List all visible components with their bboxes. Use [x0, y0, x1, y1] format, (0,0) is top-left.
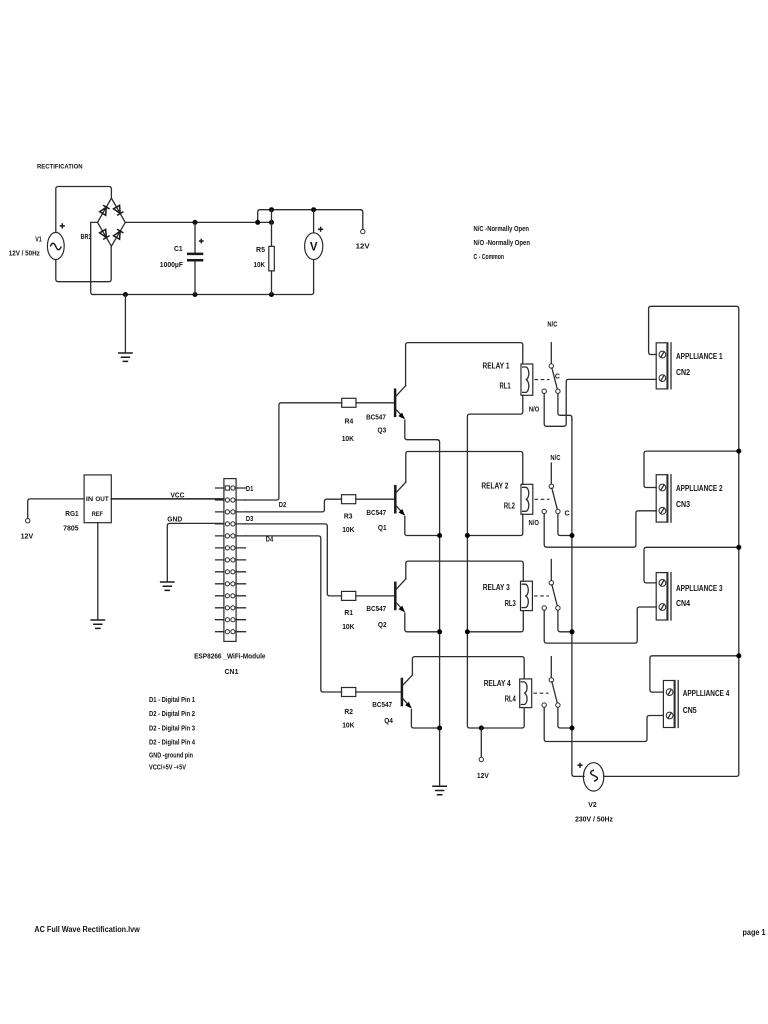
svg-text:D2 - Digital Pin 3: D2 - Digital Pin 3	[149, 723, 195, 732]
junction node appliance4 feed	[736, 653, 741, 658]
CN1 pin row 1 ticks	[216, 487, 246, 489]
wire relay3 C join	[558, 610, 572, 631]
svg-text:BC547: BC547	[366, 508, 386, 517]
ESP8266 module connector CN1 body	[224, 479, 236, 642]
wire R4 to Q3 base	[356, 402, 395, 404]
BR1 diode top-right	[113, 205, 123, 215]
capacitor C1	[187, 222, 203, 294]
svg-text:ESP8266 _WiFi-Module: ESP8266 _WiFi-Module	[194, 652, 265, 661]
svg-text:N/C: N/C	[550, 455, 560, 462]
bottom rail of rectifier	[93, 260, 314, 295]
CN1 pin row 5 pins	[225, 534, 229, 538]
wire R2 to Q4 base	[356, 691, 402, 693]
junction node relay4 C	[570, 726, 575, 731]
relay3 N/C contact	[549, 581, 553, 585]
svg-text:C: C	[555, 374, 560, 381]
relay3 N/O contact	[542, 606, 546, 610]
transistor Q4 BC547	[402, 675, 413, 709]
svg-text:RECTIFICATION: RECTIFICATION	[37, 164, 83, 171]
dashed link RL4	[534, 692, 549, 694]
ground regulator REF	[90, 620, 105, 628]
junction node relay2 C	[570, 533, 575, 538]
svg-text:10K: 10K	[254, 260, 266, 269]
dashed link RL1	[535, 379, 550, 381]
wire Q4 collector to RELAY4 coil	[412, 657, 524, 679]
CN1 pin row 9 ticks	[216, 583, 246, 585]
junction node appliance3 feed	[736, 545, 741, 550]
relay1 N/O contact	[542, 389, 546, 393]
CN1 pin row 12 pins	[225, 618, 229, 622]
svg-text:12V: 12V	[356, 242, 370, 251]
svg-text:D2: D2	[279, 500, 286, 509]
transistor Q1 BC547	[395, 482, 406, 516]
wire REF to ground	[97, 523, 99, 619]
wire appliance1 loop to mains right rail	[604, 306, 739, 776]
svg-text:VCC: VCC	[171, 490, 186, 499]
voltmeter plus	[318, 227, 323, 232]
svg-text:CN4: CN4	[676, 599, 691, 608]
svg-text:R5: R5	[256, 245, 265, 254]
svg-text:page 1: page 1	[743, 928, 766, 937]
dashed link RL2	[535, 498, 550, 500]
junction node R5 top	[269, 220, 274, 225]
CN1 pin row 6 pins	[225, 546, 229, 550]
wire row3 to R3	[246, 499, 342, 512]
wire appliance2 loop	[644, 451, 739, 487]
svg-text:D3: D3	[246, 514, 253, 523]
svg-text:12V: 12V	[21, 532, 34, 541]
terminal 12V relay supply	[479, 757, 483, 761]
svg-text:12V / 50Hz: 12V / 50Hz	[9, 249, 40, 258]
CN1 pin row 8 ticks	[216, 571, 246, 573]
CN1 pin row 9 pins	[225, 582, 229, 586]
ground GND net	[160, 582, 175, 590]
svg-text:R1: R1	[344, 608, 353, 617]
relay coil RL4	[520, 679, 532, 708]
svg-text:10K: 10K	[342, 434, 355, 443]
junction node ground tap	[123, 292, 128, 297]
wire Q2 emitter down	[405, 613, 440, 632]
CN1 pin row 7 pins	[225, 558, 229, 562]
svg-text:APPLLIANCE 2: APPLLIANCE 2	[676, 484, 723, 493]
wire relay4 N/O to appliance4	[544, 708, 663, 742]
wire R3 to Q1 base	[356, 498, 395, 500]
BR1 diode bottom-left	[99, 229, 109, 239]
wire D4 net row5 to R2	[246, 536, 342, 692]
appliance connector CN5	[663, 681, 678, 728]
CN1 pin row 11 pins	[225, 606, 229, 610]
AC source V1	[47, 232, 64, 259]
junction node appliance2 feed	[736, 449, 741, 454]
mains C rail vertical	[572, 419, 584, 776]
svg-text:REF: REF	[92, 511, 103, 518]
wire appliance4 loop	[650, 656, 739, 692]
pin description text block	[149, 695, 196, 771]
svg-text:RL3: RL3	[505, 599, 517, 608]
junction node C1 top	[193, 220, 198, 225]
junction node R5 upper rail	[269, 207, 274, 212]
svg-text:Q3: Q3	[378, 425, 387, 434]
svg-text:C1: C1	[174, 244, 183, 253]
junction node 12V tap	[479, 726, 484, 731]
12V terminal near RELAY4	[480, 728, 482, 757]
relay4 C contact	[556, 703, 560, 707]
CN1 pin row 7 ticks	[216, 559, 246, 561]
relay4 N/C stub	[550, 657, 552, 678]
terminal 12V output	[361, 229, 365, 233]
svg-text:V: V	[310, 241, 318, 253]
junction node Q1 emitter	[437, 533, 442, 538]
svg-text:N/C: N/C	[547, 321, 557, 328]
svg-text:R3: R3	[344, 511, 353, 520]
svg-text:IN: IN	[86, 496, 94, 503]
svg-text:RELAY 1: RELAY 1	[483, 361, 511, 370]
transistor Q2 BC547	[395, 579, 406, 613]
wire Q1 emitter down	[405, 517, 440, 536]
resistor R1	[342, 591, 356, 600]
svg-text:GND -ground pin: GND -ground pin	[149, 750, 193, 759]
svg-text:APPLLIANCE 4: APPLLIANCE 4	[683, 689, 730, 698]
svg-text:BC547: BC547	[366, 412, 386, 421]
relay2 N/C contact	[549, 484, 553, 488]
svg-text:Q1: Q1	[378, 523, 387, 532]
ground symbol main	[432, 786, 447, 794]
V2 polarity plus	[577, 763, 582, 768]
wire relay2 C join	[558, 514, 572, 536]
relay2 switch arm	[552, 488, 557, 509]
svg-text:RELAY 3: RELAY 3	[483, 583, 511, 592]
svg-text:OUT: OUT	[95, 496, 108, 503]
C1 polarity plus	[199, 239, 204, 244]
junction node C1 bottom	[193, 292, 198, 297]
CN1 pin row 4 pins	[225, 522, 229, 526]
svg-text:RL4: RL4	[505, 694, 517, 703]
svg-text:N/O: N/O	[529, 520, 540, 527]
svg-text:D2 - Digital Pin 4: D2 - Digital Pin 4	[149, 737, 196, 746]
wire relay4 C join	[558, 708, 572, 729]
wire relay3 N/O to appliance3	[544, 607, 656, 643]
relay1 C contact	[556, 389, 560, 393]
junction node relay3 C	[570, 629, 575, 634]
transistor Q3 BC547	[395, 386, 406, 420]
svg-text:12V: 12V	[477, 771, 489, 780]
wire Q3 collector to RELAY1 coil	[406, 343, 523, 386]
CN1 pin row 2 ticks	[216, 499, 246, 501]
CN1 pin row 4 ticks	[216, 523, 246, 525]
CN1 pin row 5 ticks	[216, 535, 246, 537]
relay3 N/C stub	[550, 560, 552, 581]
wire relay1 N/O to appliance1	[544, 379, 656, 426]
svg-text:10K: 10K	[342, 622, 355, 631]
wire bridge left vertex down to bottom rail	[91, 222, 98, 294]
svg-text:R4: R4	[345, 416, 354, 425]
wire Q3 emitter down	[405, 420, 437, 440]
wire V1 bottom loop to bridge bottom vertex	[56, 246, 111, 282]
CN1 pin row 3 pins	[225, 510, 229, 514]
svg-text:AC Full Wave Rectification.lvw: AC Full Wave Rectification.lvw	[34, 925, 140, 934]
svg-text:C - Common: C - Common	[474, 252, 505, 261]
12V rail feed RELAY3 coil	[467, 611, 523, 632]
relay2 N/O contact	[542, 509, 546, 513]
junction node voltmeter top	[311, 207, 316, 212]
appliance connector CN4	[656, 573, 671, 620]
relay coil RL3	[521, 581, 533, 610]
relay coil RL2	[521, 484, 533, 514]
junction node RL3 supply	[465, 629, 470, 634]
relay3 switch arm	[552, 585, 557, 606]
CN1 pin row 11 ticks	[216, 607, 246, 609]
appliance connector CN3	[656, 475, 671, 522]
CN1 pin row 13 ticks	[216, 631, 246, 633]
svg-text:N/O -Normally Open: N/O -Normally Open	[474, 238, 531, 247]
svg-text:APPLLIANCE 1: APPLLIANCE 1	[676, 352, 723, 361]
relay4 N/C contact	[549, 678, 553, 682]
svg-text:V2: V2	[588, 800, 597, 809]
ground rail vertical	[437, 440, 439, 786]
relay2 N/C stub	[550, 463, 552, 484]
svg-text:Q2: Q2	[378, 620, 387, 629]
svg-text:N/O: N/O	[529, 406, 540, 413]
svg-text:RELAY 2: RELAY 2	[481, 481, 509, 490]
CN1 pin row 8 pins	[225, 570, 229, 574]
svg-text:CN3: CN3	[676, 500, 691, 509]
junction node RL2 supply	[465, 533, 470, 538]
relay1 N/C contact	[549, 364, 553, 368]
CN1 pin row 6 ticks	[216, 547, 246, 549]
svg-text:7805: 7805	[63, 523, 79, 532]
resistor R2	[342, 688, 356, 697]
V1 polarity plus	[60, 223, 65, 228]
svg-text:RG1: RG1	[65, 509, 78, 518]
relay4 switch arm	[552, 682, 557, 703]
BR1 diode top-left	[99, 205, 109, 215]
relay4 N/O contact	[542, 703, 546, 707]
svg-text:RL1: RL1	[500, 381, 512, 390]
CN1 pin row 13 pins	[225, 630, 229, 634]
svg-text:D2 - Digital Pin 2: D2 - Digital Pin 2	[149, 709, 195, 718]
dashed link RL3	[534, 595, 549, 597]
junction node R5 bottom	[269, 292, 274, 297]
resistor R3	[342, 495, 356, 504]
svg-text:GND: GND	[167, 514, 182, 523]
terminal 12V input	[26, 519, 30, 523]
svg-text:V1: V1	[35, 235, 42, 244]
appliance connector CN2	[656, 343, 671, 389]
svg-text:CN5: CN5	[683, 706, 698, 715]
svg-text:C: C	[565, 511, 570, 518]
CN1 pin row 10 pins	[225, 594, 229, 598]
resistor R4	[342, 398, 356, 407]
wire Q1 collector to RELAY2 coil	[406, 452, 523, 485]
svg-text:10K: 10K	[342, 525, 355, 534]
svg-text:RL2: RL2	[504, 501, 516, 510]
relay1 N/C stub	[550, 343, 552, 364]
relay2 C contact	[556, 509, 560, 513]
junction node Q4 emitter	[437, 726, 442, 731]
CN1 pin row 12 ticks	[216, 619, 246, 621]
svg-text:VCC/+5V -+5V: VCC/+5V -+5V	[149, 762, 186, 771]
ground of rectifier	[124, 295, 126, 353]
CN1 pin row 1 pins	[225, 486, 229, 490]
AC source V2	[583, 763, 603, 791]
relay3 C contact	[556, 606, 560, 610]
CN1 pin row 2 pins	[225, 498, 229, 502]
wire bridge right vertex to DC rail	[125, 221, 271, 223]
resistor R5	[269, 210, 275, 295]
svg-text:N/C -Normally Open: N/C -Normally Open	[474, 224, 530, 233]
12V output terminal	[360, 210, 362, 230]
wire Q2 collector to RELAY3 coil	[406, 561, 524, 581]
svg-text:RELAY 4: RELAY 4	[484, 679, 512, 688]
svg-text:D1: D1	[246, 484, 253, 493]
svg-text:BC547: BC547	[366, 604, 386, 613]
wire relay1 C to mains rail	[558, 394, 572, 420]
relay coil RL1	[521, 364, 533, 395]
svg-text:Q4: Q4	[384, 716, 393, 725]
svg-text:230V / 50Hz: 230V / 50Hz	[575, 814, 613, 823]
wire GND from CN1 to ground	[167, 523, 224, 581]
bridge rectifier BR1 diamond	[98, 198, 126, 246]
wire VCC from regulator to CN1	[111, 498, 224, 500]
wire relay2 N/O to appliance2	[544, 511, 656, 547]
BR1 diode bottom-right	[113, 229, 123, 239]
wire R1 to Q2 base	[356, 595, 395, 597]
regulator RG1 7805	[84, 475, 111, 523]
CN1 pin row 3 ticks	[216, 511, 246, 513]
svg-text:10K: 10K	[342, 721, 355, 730]
relay1 switch arm	[552, 368, 557, 389]
12V rail from RELAY1 coil	[467, 395, 524, 728]
svg-text:CN1: CN1	[225, 667, 239, 676]
svg-text:R2: R2	[344, 707, 353, 716]
jog up to upper rail	[258, 210, 361, 223]
wire D2 net row2 to R4	[246, 403, 342, 500]
voltmeter V	[305, 210, 323, 260]
12V rail feed RELAY2 coil	[467, 514, 522, 535]
junction node rail jog	[255, 220, 260, 225]
wire appliance3 loop	[644, 547, 739, 583]
CN1 pin row 10 ticks	[216, 595, 246, 597]
svg-text:CN2: CN2	[676, 368, 691, 377]
wire V1 top to bridge top vertex	[56, 187, 112, 233]
wire D3 net row4 to R1	[246, 524, 342, 596]
svg-text:BC547: BC547	[372, 700, 392, 709]
svg-text:D1 - Digital Pin 1: D1 - Digital Pin 1	[149, 695, 195, 704]
wire Q4 emitter down	[411, 710, 439, 729]
svg-text:BR1: BR1	[81, 232, 92, 241]
svg-text:APPLLIANCE 3: APPLLIANCE 3	[676, 584, 723, 593]
junction node Q2 emitter	[437, 629, 442, 634]
svg-text:1000µF: 1000µF	[160, 260, 184, 269]
